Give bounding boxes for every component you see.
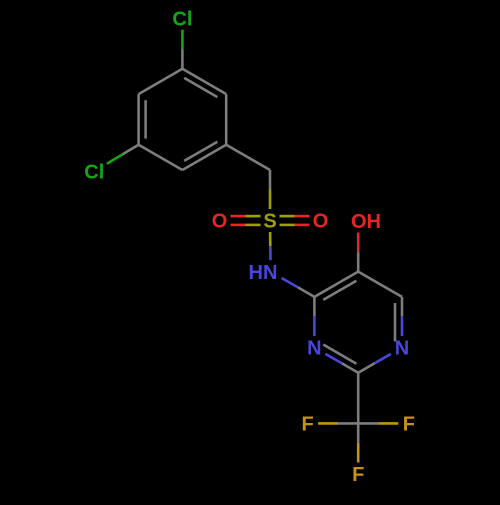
svg-text:O: O — [313, 211, 329, 233]
svg-text:S: S — [263, 211, 276, 233]
svg-text:HN: HN — [249, 262, 278, 284]
svg-text:F: F — [301, 414, 313, 436]
svg-text:F: F — [352, 464, 364, 486]
svg-text:F: F — [403, 414, 415, 436]
svg-text:O: O — [212, 211, 228, 233]
svg-text:N: N — [307, 338, 321, 360]
svg-text:N: N — [395, 338, 409, 360]
svg-text:Cl: Cl — [172, 8, 192, 30]
svg-text:Cl: Cl — [84, 162, 104, 184]
svg-text:OH: OH — [351, 211, 381, 233]
